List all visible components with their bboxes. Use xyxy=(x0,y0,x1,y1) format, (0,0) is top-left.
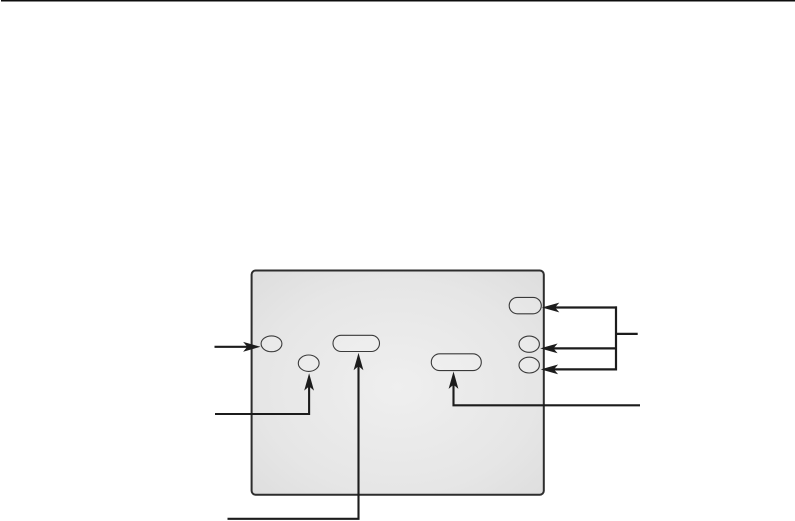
callout arrow 7 shaft (into button G) xyxy=(552,368,617,370)
callout arrow 7 head xyxy=(541,365,558,375)
callout arrow 3 head xyxy=(354,353,364,370)
callout arrow 4 head xyxy=(449,372,459,389)
button D (wide pill, middle) xyxy=(431,354,481,371)
callout arrow 4 shaft (right L, into button D) xyxy=(454,383,641,406)
callout bracket vertical trunk xyxy=(615,306,617,370)
button F (small ellipse, right column upper) xyxy=(519,336,539,352)
button B (small ellipse, below-right of A) xyxy=(298,355,319,371)
callout arrow 6 head xyxy=(540,344,557,354)
callout arrow 5 head xyxy=(542,303,559,313)
button G (small ellipse, right column lower) xyxy=(519,357,539,373)
callout arrow 1 head xyxy=(243,342,260,352)
callout arrow 2 shaft (bottom-left L, into button B) xyxy=(215,384,309,414)
button E (pill, top-right) xyxy=(509,297,541,313)
button C (wide pill, top-middle-left) xyxy=(333,335,380,351)
callout arrow 5 shaft (into button E) xyxy=(553,306,617,308)
callout arrow 3 shaft (bottom long L, into button C) xyxy=(228,364,359,519)
button A (small ellipse, left) xyxy=(261,336,282,352)
callout arrow 2 head xyxy=(304,373,314,390)
callout arrow 6 shaft (into button F) xyxy=(552,347,618,349)
callout bracket stub xyxy=(616,333,638,335)
callout arrow 1 shaft (left, into button A) xyxy=(215,346,250,348)
device panel body xyxy=(252,271,544,495)
header rule xyxy=(1,0,795,2)
